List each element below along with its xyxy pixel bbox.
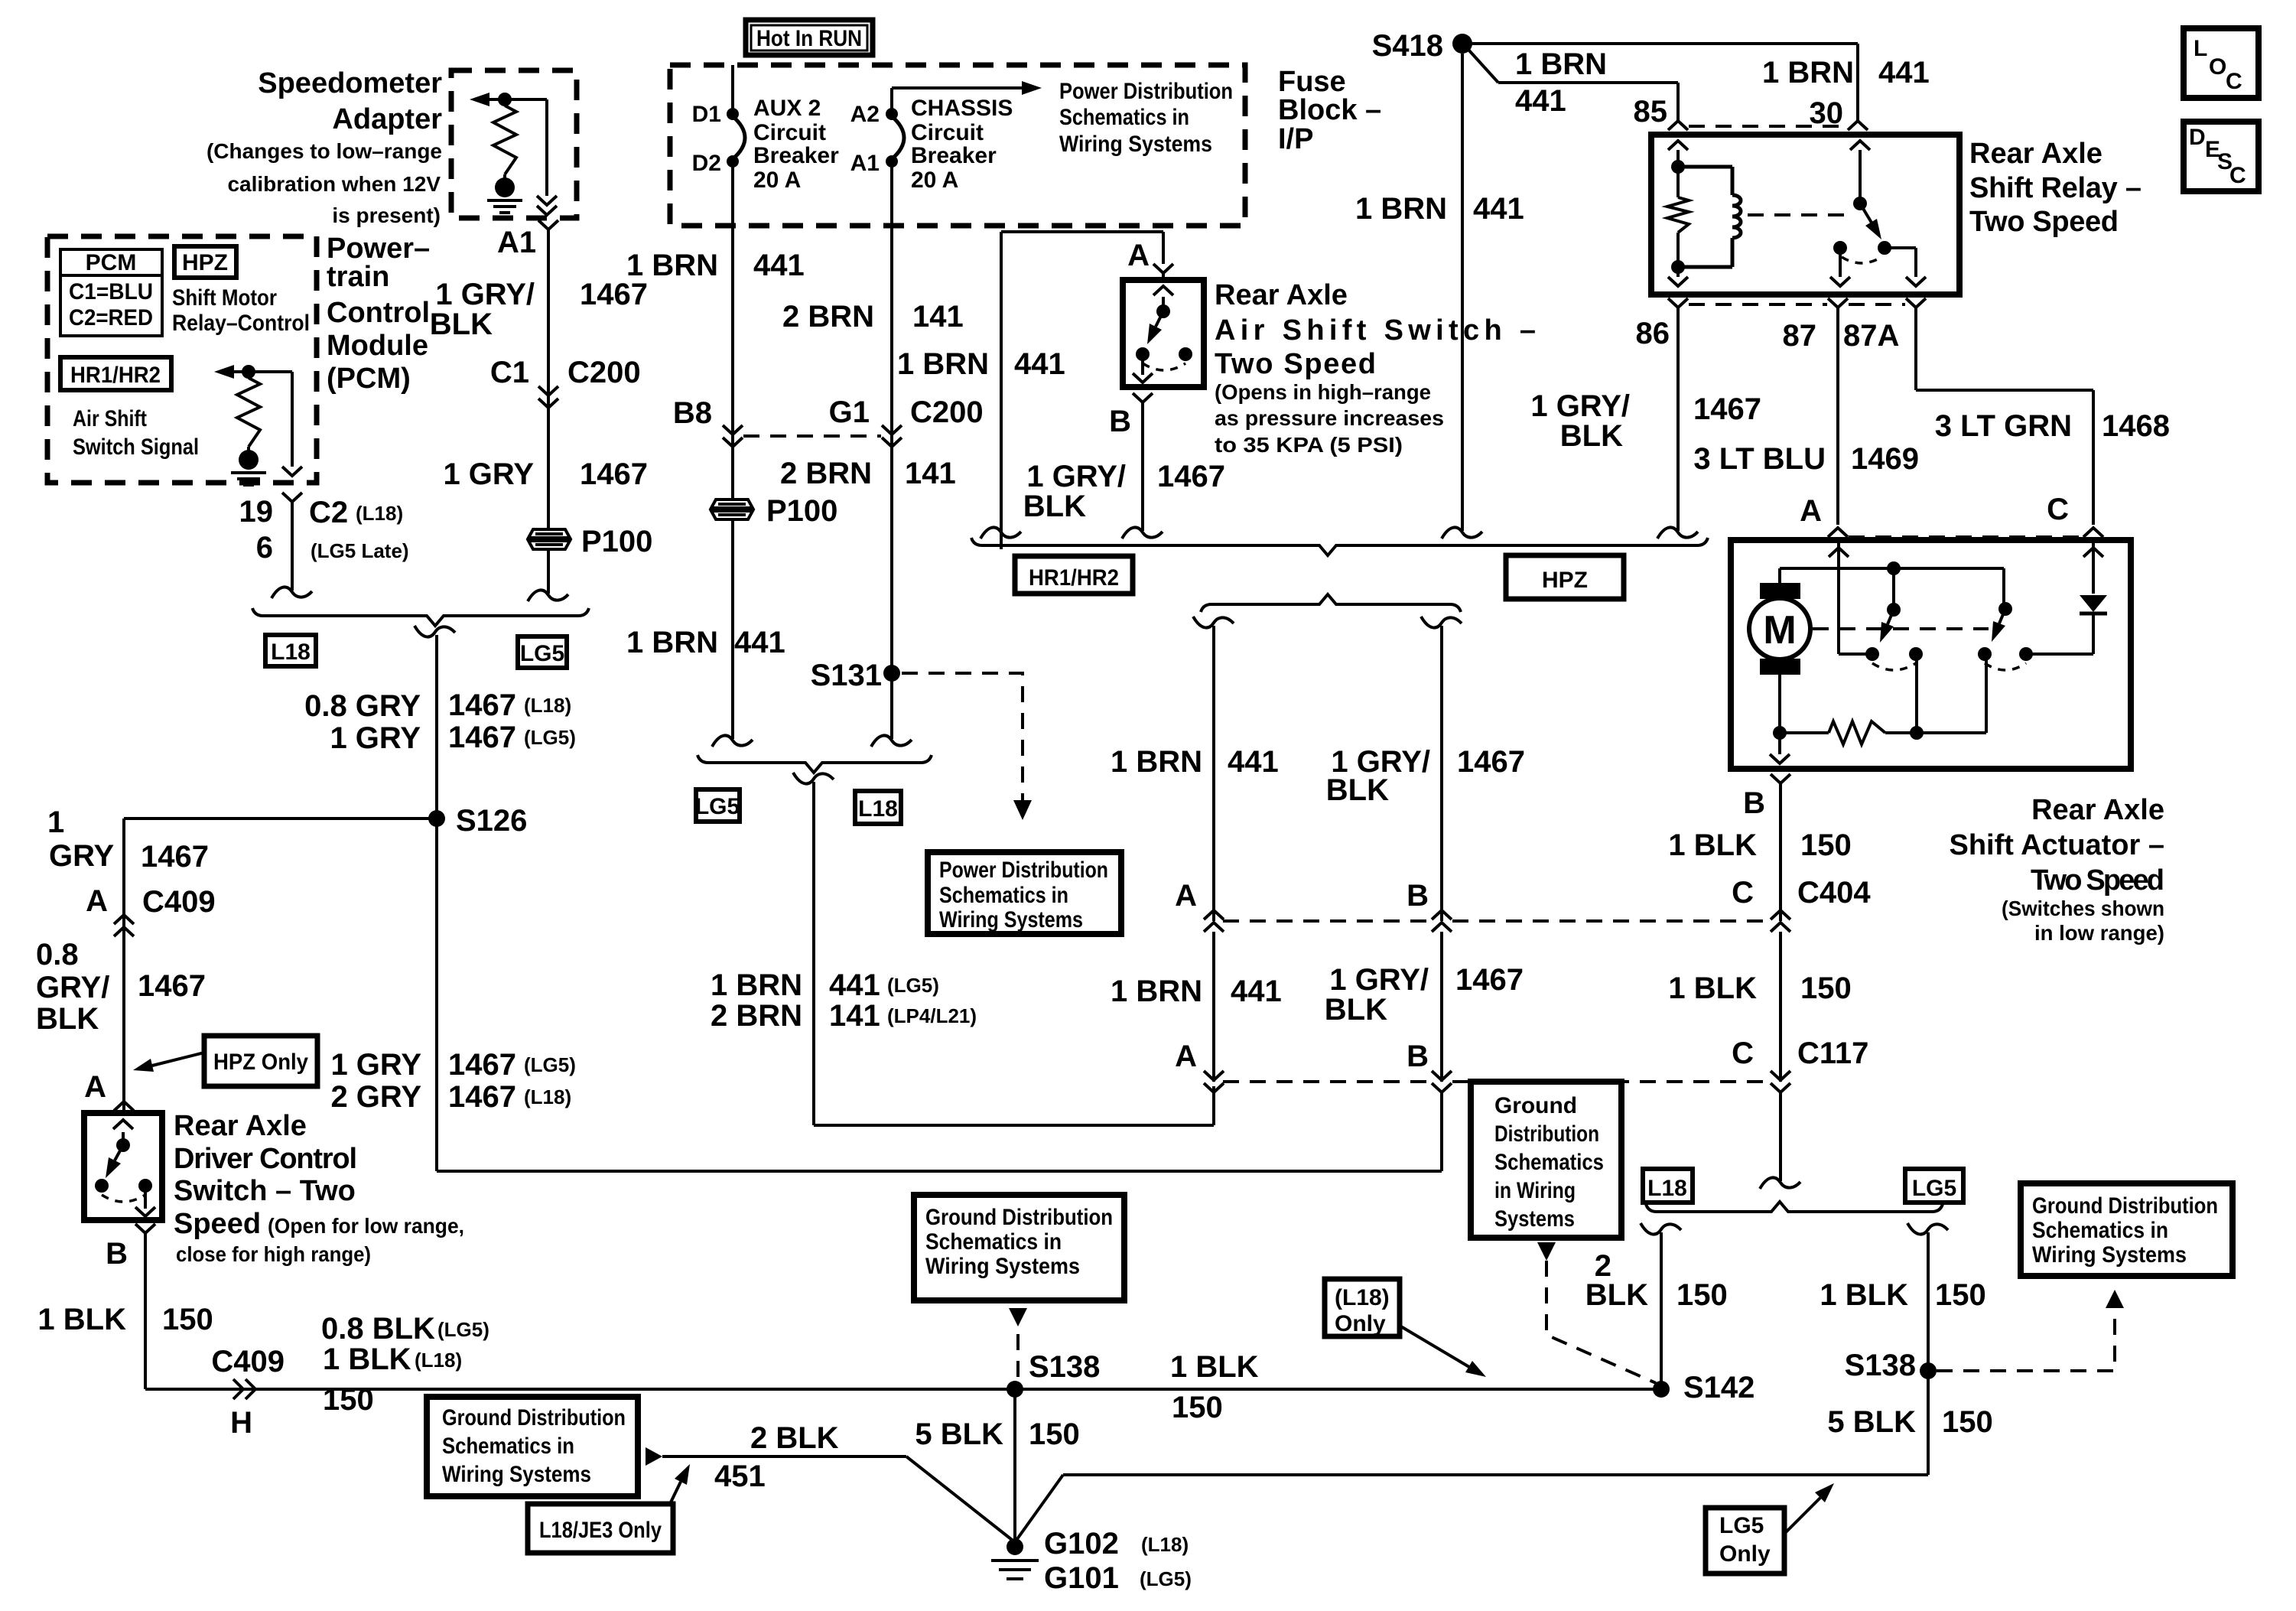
svg-text:GRY/: GRY/ [36, 971, 109, 1004]
svg-text:2 BRN: 2 BRN [711, 999, 802, 1033]
circuit breaker AUX 2 [733, 116, 745, 159]
wire [122, 1132, 125, 1145]
svg-text:150: 150 [1942, 1405, 1993, 1439]
switch pivot [1887, 603, 1901, 617]
svg-text:P100: P100 [581, 525, 652, 558]
svg-text:HPZ: HPZ [182, 250, 228, 275]
svg-text:GRY: GRY [49, 839, 115, 873]
svg-text:1467: 1467 [448, 1048, 516, 1082]
svg-text:Module: Module [327, 330, 428, 362]
dashed wire from ground note [1016, 1334, 1020, 1385]
Ground Distribution note box [2021, 1183, 2233, 1276]
arrow up [1153, 286, 1173, 295]
wire break [1641, 1223, 1681, 1235]
dashed wire to ground note [1937, 1308, 2115, 1371]
svg-text:1 BLK: 1 BLK [37, 1303, 126, 1336]
wire pin A to switch [1839, 537, 1872, 654]
svg-text:1467: 1467 [580, 457, 648, 491]
svg-text:BLK: BLK [1325, 993, 1387, 1027]
wire break [1657, 527, 1698, 539]
connector pin B [135, 1224, 155, 1244]
svg-text:0.8: 0.8 [36, 938, 79, 971]
resistor PCM pull-up [237, 378, 260, 447]
dashed connector line C200 [743, 434, 881, 438]
svg-text:Two Speed: Two Speed [1215, 348, 1376, 380]
svg-text:C409: C409 [142, 885, 216, 919]
junction [1910, 726, 1924, 740]
svg-text:Rear Axle: Rear Axle [2031, 794, 2164, 826]
wire 1 BRN 441 [1461, 54, 1464, 531]
wire [503, 174, 506, 181]
svg-text:L18/JE3 Only: L18/JE3 Only [539, 1518, 662, 1543]
L18 tag box [265, 635, 316, 666]
svg-text:441: 441 [1878, 56, 1930, 89]
svg-text:441: 441 [1014, 347, 1065, 381]
arrow air shift switch signal [234, 370, 249, 373]
contact [1909, 647, 1923, 661]
svg-text:BLK: BLK [36, 1002, 99, 1036]
svg-text:Circuit: Circuit [753, 120, 826, 145]
svg-text:C200: C200 [567, 356, 641, 389]
wire pin C to diode [2092, 537, 2095, 594]
svg-text:0.8 GRY: 0.8 GRY [304, 689, 421, 723]
svg-text:2 BRN: 2 BRN [782, 300, 874, 334]
wire 5 BLK 150 [1015, 1232, 1928, 1542]
arrowhead up [2106, 1290, 2124, 1308]
wire [547, 550, 550, 594]
HR1/HR2 tag box [1015, 556, 1133, 594]
LG5 tag box [696, 789, 740, 822]
svg-text:A: A [1800, 494, 1822, 528]
svg-text:87: 87 [1783, 319, 1817, 353]
svg-text:1 GRY/: 1 GRY/ [1530, 389, 1630, 423]
svg-text:(Open for low range,: (Open for low range, [268, 1214, 464, 1238]
svg-text:Schematics in: Schematics in [2032, 1218, 2168, 1243]
svg-text:LG5: LG5 [1719, 1513, 1764, 1538]
connector C117 pin B [1432, 1071, 1452, 1080]
svg-text:C: C [1732, 876, 1754, 910]
svg-text:0.8 BLK: 0.8 BLK [321, 1312, 435, 1346]
arrow up [1850, 141, 1870, 150]
contact 87 [1833, 241, 1847, 255]
actuator switch 1 lever [1888, 610, 1894, 624]
svg-text:441: 441 [1515, 84, 1566, 118]
wire 1 BLK 150 [1779, 1092, 1782, 1181]
svg-text:LG5: LG5 [520, 641, 564, 666]
svg-text:1467: 1467 [1455, 963, 1524, 997]
wire 1 BRN 441 [1212, 932, 1215, 1082]
svg-text:1 GRY: 1 GRY [330, 1048, 421, 1082]
contact [1865, 647, 1879, 661]
svg-text:LG5: LG5 [1912, 1176, 1956, 1201]
svg-text:3 LT BLU: 3 LT BLU [1693, 442, 1826, 476]
connector C404 pin B [1432, 923, 1452, 932]
svg-text:S418: S418 [1372, 29, 1443, 63]
svg-text:150: 150 [1800, 828, 1852, 862]
dashed throw arc [1872, 663, 1916, 670]
connector C404 pin C [1771, 923, 1790, 932]
svg-text:1467: 1467 [1457, 745, 1525, 779]
svg-text:150: 150 [1800, 971, 1852, 1005]
wire [1141, 354, 1144, 375]
switch pivot [116, 1138, 130, 1152]
wire break [528, 590, 568, 601]
arrow up [1668, 141, 1688, 150]
connector pin 85 [1668, 110, 1688, 130]
switch lever [115, 1145, 123, 1160]
svg-text:(Opens in high–range: (Opens in high–range [1215, 380, 1431, 404]
svg-text:Ground Distribution: Ground Distribution [2032, 1193, 2218, 1219]
svg-text:Air Shift Switch –: Air Shift Switch – [1215, 314, 1536, 347]
svg-text:Power Distribution: Power Distribution [1059, 79, 1233, 104]
svg-text:Power Distribution: Power Distribution [939, 858, 1108, 883]
switch pivot [1156, 304, 1170, 318]
wire 3 LT BLU 1469 [1836, 318, 1839, 525]
svg-text:1 BRN: 1 BRN [711, 968, 802, 1002]
connector pin 86 [1668, 298, 1688, 318]
svg-text:451: 451 [714, 1460, 766, 1493]
wire 1 BRN 441 [1212, 626, 1215, 921]
svg-text:M: M [1763, 608, 1796, 653]
svg-text:Schematics in: Schematics in [939, 883, 1068, 908]
svg-text:Shift Relay –: Shift Relay – [1969, 172, 2142, 204]
svg-text:B: B [106, 1237, 128, 1271]
svg-text:Wiring Systems: Wiring Systems [1059, 132, 1212, 157]
svg-text:A: A [86, 884, 108, 918]
junction [498, 93, 512, 106]
svg-text:Block –: Block – [1278, 94, 1381, 126]
svg-text:BLK: BLK [1585, 1278, 1648, 1312]
svg-text:Schematics: Schematics [1494, 1150, 1604, 1175]
svg-text:(L18): (L18) [1141, 1533, 1189, 1556]
connector chevron [2083, 528, 2103, 537]
splice S142 [1653, 1381, 1670, 1398]
svg-text:2 GRY: 2 GRY [330, 1080, 421, 1114]
relay coil [1732, 195, 1741, 238]
wire 1 GRY/BLK 1467 [1141, 413, 1144, 531]
connector A1 at PCM [538, 220, 558, 240]
wire [1916, 654, 1917, 733]
svg-text:Switch – Two: Switch – Two [174, 1175, 356, 1207]
contact [1978, 647, 1992, 661]
svg-text:2 BLK: 2 BLK [750, 1421, 839, 1455]
svg-text:1 BRN: 1 BRN [626, 626, 718, 659]
svg-text:(LG5): (LG5) [524, 1053, 576, 1076]
wire 1 BLK 150 [145, 1244, 1661, 1389]
svg-text:Rear Axle: Rear Axle [174, 1110, 307, 1142]
wire [1162, 297, 1165, 311]
svg-text:(Switches shown: (Switches shown [2002, 897, 2164, 920]
junction [1773, 726, 1787, 740]
connector C200 pin C1 [538, 386, 558, 395]
svg-text:G101: G101 [1044, 1561, 1119, 1595]
svg-text:C: C [2047, 493, 2069, 526]
wire [1885, 248, 1916, 277]
connector C409 pin H [233, 1379, 255, 1399]
wire 2 BLK 451 [662, 1456, 1015, 1542]
svg-text:S126: S126 [456, 804, 527, 838]
svg-text:Air Shift: Air Shift [73, 406, 147, 431]
svg-text:Breaker: Breaker [911, 143, 997, 168]
svg-text:C2=RED: C2=RED [69, 305, 153, 330]
wire AUX 2 [731, 65, 734, 226]
switch lever [1156, 311, 1163, 327]
svg-text:A2: A2 [850, 102, 880, 127]
svg-text:(LG5): (LG5) [437, 1318, 489, 1341]
HR1/HR2 tag box [60, 357, 171, 390]
connector P100 grommet [528, 529, 570, 549]
contact [95, 1179, 109, 1193]
wire [1917, 656, 1986, 733]
svg-text:Circuit: Circuit [911, 120, 984, 145]
switch Rear Axle Air Shift [1123, 280, 1204, 387]
svg-text:Fuse: Fuse [1278, 66, 1346, 98]
wire 1 BRN 441 to relay 85 [1468, 50, 1678, 118]
svg-text:1467: 1467 [448, 688, 516, 722]
svg-text:1 BRN: 1 BRN [897, 347, 989, 381]
svg-text:86: 86 [1636, 317, 1670, 350]
svg-text:close for high range): close for high range) [176, 1242, 371, 1266]
connector pin 30 [1848, 110, 1868, 130]
fuse block dashed box [670, 65, 1245, 226]
svg-text:C117: C117 [1797, 1037, 1868, 1070]
wire 1 GRY 1467 [122, 819, 125, 1113]
svg-text:1 BRN: 1 BRN [1355, 192, 1447, 226]
svg-text:5 BLK: 5 BLK [915, 1417, 1003, 1451]
svg-text:1468: 1468 [2102, 409, 2170, 443]
wire inside PCM [249, 372, 292, 467]
wire [1778, 675, 1781, 733]
svg-text:(L18): (L18) [356, 502, 403, 525]
arrow down [537, 196, 557, 205]
contact 87A [1878, 241, 1891, 255]
relay Rear Axle Shift [1651, 135, 1959, 295]
svg-text:BLK: BLK [430, 308, 493, 341]
LOC legend box [2184, 28, 2259, 98]
harness brace L18/LG5 [252, 608, 589, 626]
wire break [1421, 617, 1462, 628]
svg-text:S138: S138 [1029, 1350, 1100, 1384]
wire break [415, 626, 455, 637]
svg-text:1 BLK: 1 BLK [1820, 1278, 1908, 1312]
harness brace LG5/L18 [698, 755, 932, 773]
svg-text:Rear Axle: Rear Axle [1215, 279, 1348, 311]
wire 1 BRN 441 [731, 226, 734, 739]
ground speedometer [495, 177, 515, 197]
svg-text:1 GRY/: 1 GRY/ [1329, 963, 1429, 997]
svg-text:Switch Signal: Switch Signal [73, 434, 199, 460]
svg-text:Schematics in: Schematics in [925, 1229, 1062, 1255]
svg-text:L18: L18 [271, 640, 311, 665]
dashed motor link [1813, 627, 1989, 630]
Hot In RUN box [746, 20, 873, 55]
svg-text:A1: A1 [850, 151, 880, 176]
wire [1892, 568, 1895, 610]
wire break [1442, 527, 1482, 539]
svg-text:D1: D1 [692, 102, 721, 127]
connector chevron [114, 1102, 134, 1111]
svg-text:G102: G102 [1044, 1527, 1119, 1561]
connector pin B8 [723, 425, 743, 434]
svg-text:1467: 1467 [138, 969, 206, 1003]
svg-text:1 BLK: 1 BLK [323, 1342, 411, 1376]
resistor speedometer pull-down [493, 106, 516, 174]
terminal A1 [886, 155, 898, 168]
wire break [712, 735, 753, 747]
svg-text:LG5: LG5 [695, 794, 740, 819]
dashed throw arc [1842, 257, 1881, 263]
dashed connector line C404 [1223, 919, 1431, 923]
wire 1 GRY/BLK 1467 [547, 240, 550, 529]
junction [1671, 160, 1685, 174]
wire 0.8/1 GRY 1467 [435, 635, 438, 1171]
svg-text:S142: S142 [1683, 1371, 1755, 1404]
svg-text:1 BRN: 1 BRN [1515, 47, 1607, 81]
svg-text:Only: Only [1335, 1311, 1386, 1336]
svg-text:BLK: BLK [1560, 419, 1623, 453]
svg-text:A1: A1 [497, 226, 536, 259]
svg-text:(LG5 Late): (LG5 Late) [311, 539, 409, 562]
wire [1778, 733, 1781, 754]
svg-text:1 GRY/: 1 GRY/ [435, 278, 535, 311]
svg-text:Hot In RUN: Hot In RUN [756, 26, 862, 51]
splice S126 [428, 810, 445, 827]
contact [1179, 347, 1192, 361]
motor M brushes [1760, 583, 1800, 599]
arrow down [1830, 277, 1850, 286]
svg-text:I/P: I/P [1278, 123, 1313, 155]
svg-text:C200: C200 [910, 395, 984, 429]
svg-text:Shift Motor: Shift Motor [172, 285, 277, 311]
arrow to power distribution [892, 86, 1022, 89]
junction [242, 365, 255, 379]
wire 1 BLK 150 [1779, 932, 1782, 1082]
svg-text:1 GRY/: 1 GRY/ [1026, 460, 1126, 493]
svg-text:1467: 1467 [448, 721, 516, 754]
svg-text:Adapter: Adapter [332, 103, 442, 135]
arrow down [1770, 754, 1790, 763]
svg-text:C: C [1732, 1037, 1754, 1070]
svg-text:Rear Axle: Rear Axle [1969, 138, 2102, 170]
svg-text:150: 150 [162, 1303, 213, 1336]
L18/JE3 Only box [528, 1504, 673, 1553]
harness brace [971, 538, 1708, 555]
svg-text:S138: S138 [1845, 1349, 1916, 1382]
svg-text:20 A: 20 A [911, 168, 958, 193]
svg-text:1 GRY: 1 GRY [443, 457, 534, 491]
svg-text:Speedometer: Speedometer [258, 67, 442, 99]
svg-text:L18: L18 [858, 796, 898, 822]
wire [1676, 150, 1680, 167]
connector pin A [1153, 264, 1173, 284]
wire 2 BLK 150 [1660, 1232, 1663, 1389]
svg-text:150: 150 [323, 1383, 374, 1417]
circuit breaker CHASSIS [892, 116, 904, 159]
svg-text:1467: 1467 [448, 1080, 516, 1114]
svg-text:Wiring Systems: Wiring Systems [925, 1254, 1080, 1279]
actuator switch 2 lever [1999, 609, 2005, 623]
arrow down [1668, 277, 1688, 286]
svg-text:(PCM): (PCM) [327, 363, 411, 395]
svg-text:Ground Distribution: Ground Distribution [925, 1205, 1113, 1230]
svg-text:B: B [1407, 879, 1429, 913]
svg-text:G1: G1 [829, 395, 870, 429]
wire 1 BRN 441 loop [814, 782, 1214, 1125]
arrow up [1829, 548, 1849, 557]
svg-text:Driver Control: Driver Control [174, 1143, 357, 1175]
svg-text:(LP4/L21): (LP4/L21) [887, 1004, 977, 1027]
svg-text:D: D [2189, 125, 2206, 150]
svg-text:1467: 1467 [580, 278, 648, 311]
contact [1136, 347, 1150, 361]
svg-text:150: 150 [1029, 1417, 1080, 1451]
arrow L18 only [1400, 1326, 1469, 1367]
PCM pin table box [60, 249, 162, 336]
wire [1839, 248, 1842, 277]
svg-text:1469: 1469 [1851, 442, 1919, 476]
dashed actuation link [1748, 213, 1849, 216]
svg-text:6: 6 [256, 531, 273, 565]
Hot In RUN inner box [751, 25, 867, 50]
wire break [793, 773, 834, 784]
svg-text:B: B [1109, 405, 1131, 438]
svg-text:1 BRN: 1 BRN [1111, 745, 1202, 779]
wire 1 BLK 150 [1779, 794, 1782, 921]
svg-text:1 BLK: 1 BLK [1668, 971, 1757, 1005]
svg-text:150: 150 [1676, 1278, 1728, 1312]
svg-text:1467: 1467 [1157, 460, 1225, 493]
svg-text:441: 441 [734, 626, 785, 659]
HPZ tag box [1506, 555, 1624, 599]
svg-text:Breaker: Breaker [753, 143, 839, 168]
svg-text:Relay–Control: Relay–Control [172, 311, 310, 336]
DESC legend box [2184, 122, 2259, 191]
svg-text:S131: S131 [811, 659, 882, 692]
svg-text:Wiring Systems: Wiring Systems [939, 907, 1083, 932]
ground PCM internal [239, 450, 259, 470]
Ground Distribution note box [1471, 1082, 1621, 1238]
connector C409 pin A [114, 927, 134, 936]
wire 1 BRN 441 to air shift switch [1001, 232, 1163, 549]
svg-text:2 BRN: 2 BRN [780, 457, 872, 490]
wire 2 GRY 1467 [437, 1092, 1442, 1171]
svg-text:C2: C2 [309, 496, 348, 529]
arrow L18/JE3 only [669, 1482, 681, 1505]
(L18) Only box [1325, 1279, 1400, 1336]
svg-text:PCM: PCM [86, 250, 137, 275]
svg-text:C: C [2229, 163, 2246, 188]
arrow up [2083, 548, 2103, 557]
svg-text:Shift Actuator –: Shift Actuator – [1950, 829, 2165, 861]
wire [1780, 568, 2004, 609]
terminal D2 [727, 155, 739, 168]
svg-text:B8: B8 [673, 396, 712, 430]
motor M [1749, 598, 1810, 659]
wire to C409 [124, 817, 437, 820]
svg-text:(L18): (L18) [524, 694, 571, 717]
svg-text:1 GRY: 1 GRY [330, 721, 421, 755]
connector C117 pin C [1771, 1071, 1790, 1080]
dashed throw arc [1143, 363, 1185, 370]
ground G102/G101 [991, 1561, 1039, 1579]
wire break [1122, 527, 1163, 539]
svg-text:is present): is present) [332, 203, 441, 227]
connector pin B [1771, 774, 1790, 794]
arrow down [1133, 373, 1153, 382]
junction [1671, 260, 1685, 274]
svg-text:H: H [230, 1406, 252, 1440]
svg-text:L18: L18 [1647, 1176, 1687, 1201]
